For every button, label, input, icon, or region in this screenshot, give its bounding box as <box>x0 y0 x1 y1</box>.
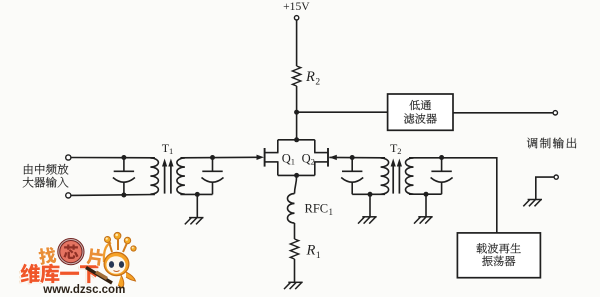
node top rail junction <box>294 137 299 142</box>
terminal modulation output <box>553 111 557 115</box>
label R1 <box>306 243 321 262</box>
wire right side lower <box>314 162 316 176</box>
wire RFC1 to R1 <box>294 223 296 239</box>
label 低通滤波器 <box>404 100 437 124</box>
Q2 gate arrow <box>329 155 337 160</box>
wire T2 primary tap to ground <box>369 194 371 217</box>
terminal input bottom <box>66 193 71 198</box>
transformer T1 secondary <box>177 158 185 194</box>
capacitor C T1 secondary <box>202 158 224 195</box>
transistor Q1 channel bar <box>264 148 266 167</box>
node A junction <box>294 110 299 115</box>
terminal +15V <box>294 16 298 20</box>
node T1 secondary cap top <box>210 155 215 160</box>
wire top rail Q pair <box>278 139 315 141</box>
terminal input top <box>66 155 71 160</box>
svg-text:1: 1 <box>169 146 173 156</box>
wire Q2 gate to T2 <box>329 156 385 158</box>
wire filter to output terminal <box>453 112 553 114</box>
label 由中频放大器输入 <box>23 164 69 188</box>
node T2 secondary cap top <box>439 155 444 160</box>
transistor Q1 source stroke <box>265 161 279 163</box>
label 调制输出 <box>527 138 576 149</box>
transformer T2 secondary <box>406 158 414 194</box>
ground main <box>284 282 303 289</box>
wire right side upper <box>314 140 316 153</box>
svg-text:+15V: +15V <box>283 0 310 13</box>
ground T2 secondary <box>414 217 433 224</box>
wire node A to low-pass filter <box>297 111 388 113</box>
wire T1 secondary bottom <box>180 193 212 195</box>
wire T2 secondary tap to ground <box>425 194 427 217</box>
transformer T1 core arrows <box>162 159 174 194</box>
svg-text:2: 2 <box>397 146 401 156</box>
node C top <box>121 155 126 160</box>
transformer T2 primary <box>381 158 389 194</box>
transistor Q2 source stroke <box>314 161 328 163</box>
capacitor C T2 primary <box>341 158 363 195</box>
svg-text:www.dzsc.com: www.dzsc.com <box>42 284 125 296</box>
inductor RFC1 <box>288 194 295 223</box>
wire bottom rail Q pair <box>278 174 315 176</box>
node T2 cap top <box>350 155 355 160</box>
label 载波再生振荡器 <box>476 243 520 266</box>
wire Q pair to RFC1 <box>295 175 297 193</box>
label Q1 <box>282 151 295 166</box>
label Q2 <box>302 151 315 166</box>
svg-text:Q: Q <box>302 151 311 165</box>
Q1 gate arrow <box>257 155 265 160</box>
block carrier regeneration oscillator <box>457 233 540 278</box>
ground T2 primary <box>358 217 377 224</box>
node T2 primary ground tap <box>368 192 373 197</box>
svg-text:RFC: RFC <box>305 202 329 216</box>
svg-text:Q: Q <box>282 151 291 165</box>
node bottom rail junction <box>294 173 299 178</box>
wire +15V to R2 <box>296 20 298 66</box>
node T2 secondary ground tap <box>424 192 429 197</box>
block low-pass filter <box>388 94 453 130</box>
wire T1 secondary top to Q1 gate <box>180 156 258 159</box>
terminal carrier input <box>554 175 558 179</box>
transformer T1 primary <box>150 158 158 194</box>
label T2 <box>390 141 402 156</box>
svg-text:1: 1 <box>329 207 334 217</box>
transistor Q2 drain stroke <box>314 152 328 154</box>
svg-text:R: R <box>306 243 316 259</box>
ground T1 <box>185 218 204 225</box>
transistor Q2 channel bar <box>327 148 329 167</box>
transistor Q1 drain stroke <box>265 152 279 154</box>
svg-text:1: 1 <box>291 157 295 167</box>
resistor R2 <box>292 66 300 86</box>
svg-text:R: R <box>305 69 315 85</box>
wire terminal to ground <box>536 177 554 199</box>
label T1 <box>162 141 174 156</box>
svg-text:2: 2 <box>311 157 315 167</box>
wire R1 to ground <box>294 259 296 282</box>
wire T2 primary bottom rail <box>352 193 385 195</box>
wire T2 secondary bottom rail <box>409 193 442 195</box>
node T1 ground tap <box>195 192 200 197</box>
resistor R1 <box>290 239 298 259</box>
transformer T2 core arrows <box>391 159 402 194</box>
wire left side upper <box>277 140 279 153</box>
watermark logo dzsc <box>19 232 136 296</box>
capacitor C T2 secondary <box>431 158 453 195</box>
wire R2 to node A <box>296 86 298 140</box>
wire input top to T1 <box>71 157 155 159</box>
wire T2 secondary top rail <box>409 158 497 233</box>
label R2 <box>305 69 320 88</box>
node C bottom <box>121 193 126 198</box>
svg-text:2: 2 <box>315 78 320 88</box>
capacitor C input tank <box>113 158 135 196</box>
wire input bottom to T1 <box>71 194 155 197</box>
label RFC1 <box>305 202 334 218</box>
ground right <box>523 200 542 207</box>
wire T1 tap to ground <box>196 194 198 217</box>
label +15V <box>283 0 310 13</box>
svg-text:1: 1 <box>316 251 321 261</box>
wire left side lower <box>277 162 279 176</box>
